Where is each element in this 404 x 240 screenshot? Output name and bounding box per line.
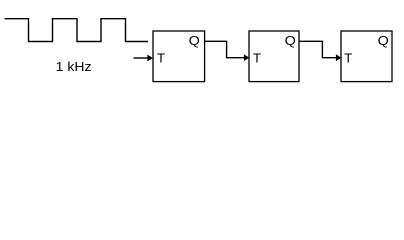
svg-text:1 kHz: 1 kHz bbox=[56, 59, 92, 74]
svg-text:T: T bbox=[157, 50, 165, 65]
svg-text:T: T bbox=[344, 50, 352, 65]
svg-text:Q: Q bbox=[285, 33, 296, 48]
svg-text:T: T bbox=[253, 50, 261, 65]
svg-text:Q: Q bbox=[189, 33, 200, 48]
svg-text:Q: Q bbox=[378, 33, 389, 48]
